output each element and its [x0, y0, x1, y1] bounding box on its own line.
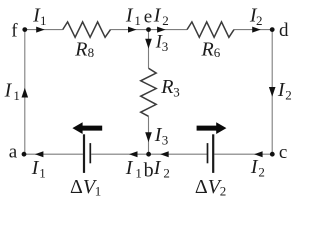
- svg-text:I: I: [125, 5, 134, 27]
- svg-text:1: 1: [134, 13, 141, 28]
- svg-text:3: 3: [162, 39, 169, 54]
- svg-text:6: 6: [214, 45, 221, 60]
- svg-text:2: 2: [163, 166, 170, 181]
- svg-text:I: I: [125, 157, 134, 179]
- svg-text:ΔV: ΔV: [195, 176, 223, 198]
- svg-text:1: 1: [39, 166, 46, 181]
- svg-text:3: 3: [162, 132, 169, 147]
- svg-text:I: I: [4, 79, 13, 101]
- svg-text:2: 2: [258, 165, 265, 180]
- svg-text:1: 1: [40, 13, 47, 28]
- svg-text:ΔV: ΔV: [70, 176, 98, 198]
- svg-text:e: e: [144, 7, 152, 28]
- svg-text:1: 1: [95, 183, 102, 198]
- svg-text:R: R: [201, 38, 214, 60]
- svg-text:R: R: [160, 76, 173, 98]
- svg-text:I: I: [153, 157, 162, 179]
- svg-text:2: 2: [256, 13, 263, 28]
- svg-text:a: a: [9, 141, 18, 162]
- svg-text:f: f: [11, 20, 18, 41]
- svg-text:d: d: [279, 20, 289, 41]
- svg-text:1: 1: [13, 88, 20, 103]
- svg-text:8: 8: [88, 45, 95, 60]
- svg-text:b: b: [144, 159, 154, 181]
- svg-text:2: 2: [285, 88, 292, 103]
- svg-text:c: c: [279, 142, 287, 163]
- svg-text:1: 1: [135, 166, 142, 181]
- svg-text:3: 3: [173, 85, 180, 100]
- svg-text:2: 2: [220, 183, 227, 198]
- svg-text:R: R: [74, 38, 87, 60]
- svg-text:2: 2: [162, 13, 169, 28]
- svg-text:I: I: [153, 5, 162, 27]
